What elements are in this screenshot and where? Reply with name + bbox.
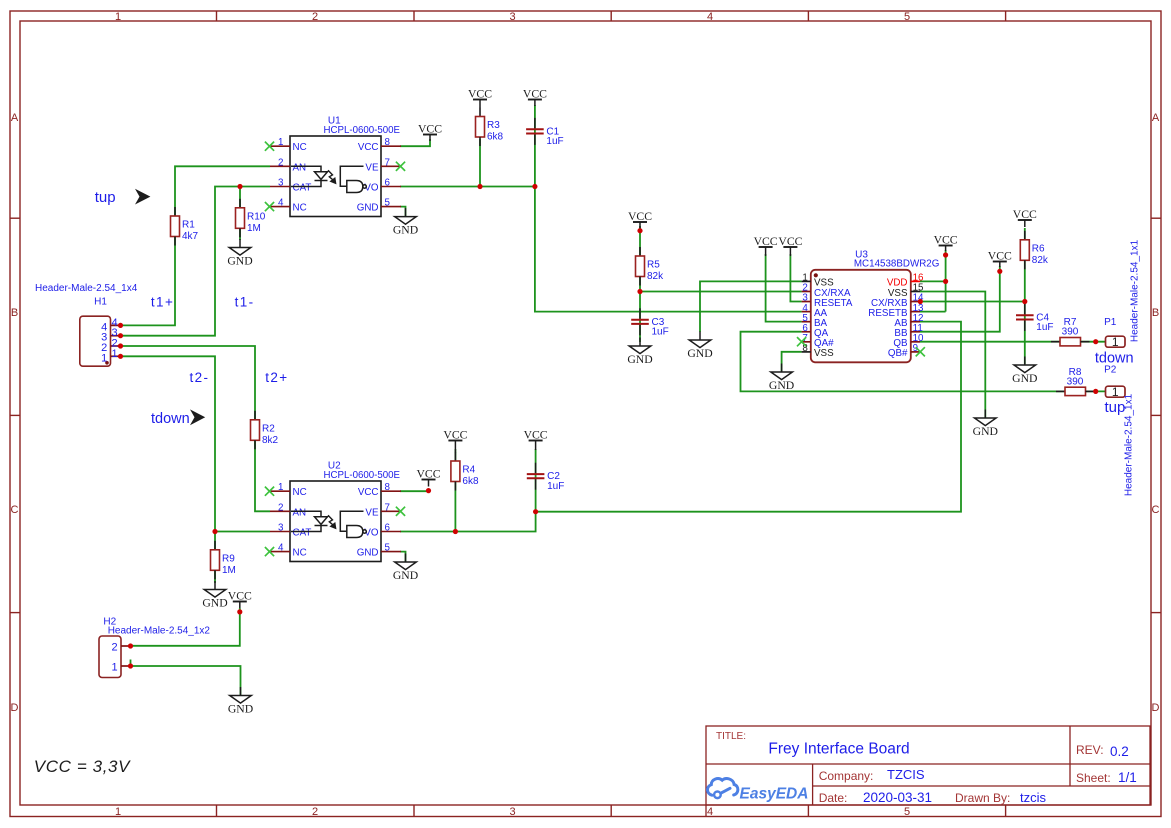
svg-text:7: 7	[385, 502, 390, 513]
svg-text:GND: GND	[357, 203, 379, 214]
svg-text:NC: NC	[293, 203, 307, 214]
node H2 pin 2 junction	[128, 643, 133, 648]
svg-text:1: 1	[101, 352, 107, 364]
svg-text:B: B	[11, 307, 18, 319]
node R3 / VO1	[477, 184, 482, 189]
resistor R10 1M	[236, 199, 266, 238]
U3 pin 9 QB#	[888, 343, 920, 359]
power flag VCC above C1	[523, 88, 547, 107]
ground below R10	[227, 239, 252, 268]
svg-text:1: 1	[115, 806, 121, 818]
svg-text:1: 1	[278, 482, 283, 493]
svg-text:AN: AN	[293, 162, 307, 173]
H1 pin1 orientation marker	[105, 361, 109, 365]
wire VCC to U3 BA pin5	[766, 254, 802, 322]
svg-text:82k: 82k	[647, 271, 664, 282]
node H1 pin 2 junction	[118, 343, 123, 348]
U1 pin 7 VE	[365, 157, 401, 173]
resistor R9 1M	[211, 541, 236, 580]
U2 pin 7 VE	[365, 502, 401, 518]
svg-text:VE: VE	[365, 507, 379, 518]
svg-text:4: 4	[707, 11, 713, 23]
U2 pin 6 VO	[364, 523, 401, 539]
svg-text:2: 2	[278, 157, 283, 168]
power flag VCC to U3 BB	[988, 250, 1012, 268]
node R5 / C3 / CX-RXA	[637, 289, 642, 294]
U3 pin 4 AA	[802, 303, 828, 319]
U2 pin 5 GND	[357, 543, 401, 559]
no-connect U3 pin7 QA#	[797, 337, 806, 346]
svg-text:P1: P1	[1104, 317, 1117, 328]
svg-text:2: 2	[312, 11, 318, 23]
resistor R3 6k8	[476, 108, 504, 147]
wire U3 pin1 VSS to ground	[700, 281, 802, 332]
svg-text:2: 2	[312, 806, 318, 818]
svg-text:4: 4	[278, 543, 284, 554]
node VCC at BB rail	[997, 269, 1002, 274]
no-connect U1 pin7	[396, 162, 405, 171]
node C2 / AB net	[533, 509, 538, 514]
wire net tdown2 : U3 QB - R7 - P1	[920, 341, 1106, 343]
node U3 VDD pin16	[943, 279, 948, 284]
wire VCC to U3 BB pin11	[920, 266, 1000, 332]
capacitor C4 1uF	[1016, 304, 1054, 333]
power flag VCC at U2 pin8	[416, 468, 440, 487]
wire VCC to U3 VDD pin16 and RESETB pin13	[945, 250, 947, 312]
power flag VCC to U3 BA	[754, 235, 778, 256]
wire VCC to H2 pin2	[131, 608, 240, 646]
svg-text:3: 3	[278, 523, 284, 534]
wire C2 branch	[535, 449, 537, 512]
resistor R4 6k8	[451, 452, 479, 491]
U3 pin 10 QB	[893, 333, 924, 349]
svg-text:Header-Male-2.54_1x2: Header-Male-2.54_1x2	[108, 626, 211, 637]
ground at U2 pin5	[393, 554, 418, 583]
svg-text:R6: R6	[1032, 243, 1045, 254]
svg-text:GND: GND	[228, 703, 253, 716]
svg-text:1: 1	[1112, 335, 1119, 349]
svg-text:2: 2	[111, 642, 117, 654]
power flag VCC above R4	[443, 429, 467, 453]
wire net VO2 : U2 VO - R4 - C2	[400, 512, 536, 532]
svg-text:tup: tup	[1105, 399, 1126, 416]
no-connect U2 pin1	[265, 487, 274, 496]
svg-text:8k2: 8k2	[262, 435, 279, 446]
power flag VCC to U3 RESETA	[778, 235, 802, 256]
power flag VCC above R3	[468, 88, 492, 108]
U1 pin 1 NC	[270, 137, 307, 153]
U2 pin 8 VCC	[358, 482, 401, 498]
wire U3 pin8 VSS to ground	[782, 352, 802, 372]
svg-text:Frey Interface Board: Frey Interface Board	[768, 741, 909, 758]
U2 pin 2 AN	[270, 502, 306, 518]
svg-text:4: 4	[707, 806, 713, 818]
svg-text:5: 5	[385, 198, 391, 209]
U2 internal output buffer gate	[340, 511, 366, 537]
resistor R8 390	[1056, 367, 1095, 396]
wire U1 GND pin5	[400, 207, 406, 217]
U1 internal LED	[291, 166, 328, 186]
svg-text:5: 5	[904, 806, 910, 818]
svg-text:1uF: 1uF	[652, 327, 669, 338]
node R7 / P1	[1093, 339, 1098, 344]
svg-text:390: 390	[1062, 327, 1079, 338]
no-connect U2 pin4	[265, 547, 274, 556]
wire U3 CX/RXA to R5/C3 node	[640, 291, 802, 293]
U3 pin 16 VDD	[887, 273, 924, 289]
svg-text:2020-03-31: 2020-03-31	[863, 790, 932, 805]
node R4 / VO2	[453, 529, 458, 534]
svg-text:t1+: t1+	[151, 295, 174, 310]
svg-text:QB#: QB#	[888, 348, 908, 359]
svg-text:EasyEDA: EasyEDA	[740, 785, 809, 802]
svg-text:GND: GND	[973, 425, 998, 438]
svg-text:5: 5	[385, 543, 391, 554]
svg-text:3: 3	[509, 806, 515, 818]
wire R3 pull-up branch	[479, 139, 481, 187]
U3 pin 15 VSS	[888, 283, 924, 299]
wire net tup2 : U3 QA - R8 - P2	[741, 332, 1106, 392]
svg-text:1: 1	[112, 348, 118, 360]
no-connect U3 pin9 QB#	[916, 347, 925, 356]
svg-text:Header-Male-2.54_1x4: Header-Male-2.54_1x4	[35, 283, 138, 294]
resistor R5 82k	[636, 247, 665, 286]
node H1 pin 4 junction	[118, 323, 123, 328]
svg-text:8: 8	[385, 137, 391, 148]
power flag VCC above R6	[1013, 208, 1037, 227]
svg-text:1: 1	[115, 11, 121, 23]
svg-text:GND: GND	[393, 224, 418, 237]
svg-text:0.2: 0.2	[1110, 744, 1129, 759]
wire H2 pin1 to ground	[131, 666, 241, 696]
power flag VCC to H2 pin2	[228, 590, 252, 609]
wire U3 RESETB pin13 link	[920, 311, 946, 313]
U2 internal photon arrow	[328, 515, 336, 528]
node R8 / P2	[1093, 389, 1098, 394]
U1 pin 8 VCC	[358, 137, 401, 153]
capacitor C3 1uF	[631, 308, 669, 337]
svg-text:390: 390	[1067, 376, 1084, 387]
node VCC to H2	[237, 609, 242, 614]
wire U2 GND pin5	[400, 552, 406, 562]
node C1 / VO1	[532, 184, 537, 189]
U1 internal output buffer gate	[340, 166, 366, 192]
svg-text:1: 1	[111, 662, 117, 674]
U1 pin 6 VO	[364, 178, 401, 194]
svg-text:R2: R2	[262, 423, 275, 434]
resistor R1 4k7	[171, 207, 199, 246]
svg-text:t2+: t2+	[265, 370, 288, 385]
svg-text:1uF: 1uF	[1036, 322, 1053, 333]
svg-text:t1-: t1-	[235, 295, 255, 310]
svg-text:4: 4	[278, 198, 284, 209]
svg-text:R4: R4	[462, 465, 475, 476]
wire U3 VDD pin16 stub link	[920, 280, 946, 282]
H2 pin 2	[111, 642, 130, 654]
svg-text:8: 8	[385, 482, 391, 493]
svg-text:MC14538BDWR2G: MC14538BDWR2G	[854, 259, 939, 270]
svg-text:6k8: 6k8	[487, 132, 504, 143]
ground at U3 pin15	[973, 410, 998, 439]
U3 pin 13 RESETB	[868, 303, 924, 319]
wire U1 VCC pin8	[400, 139, 430, 146]
svg-text:VCC: VCC	[358, 487, 379, 498]
U1 pin 5 GND	[357, 198, 401, 214]
svg-text:R9: R9	[222, 553, 235, 564]
svg-text:TZCIS: TZCIS	[887, 767, 925, 782]
connector P1 Header-Male-2.54_1x1 (tdown)	[1095, 239, 1141, 366]
resistor R2 8k2	[251, 411, 279, 450]
node U1 CAT / R10	[237, 184, 242, 189]
svg-text:3: 3	[278, 178, 284, 189]
U3 pin 7 QA#	[802, 333, 835, 349]
svg-text:Header-Male-2.54_1x1: Header-Male-2.54_1x1	[1124, 393, 1135, 496]
svg-text:VE: VE	[365, 162, 379, 173]
U3 pin 14 CX/RXB	[871, 293, 924, 309]
net label tdown with arrow	[151, 409, 205, 427]
title block	[706, 726, 1150, 817]
svg-text:B: B	[1152, 307, 1159, 319]
node VCC at U3 VDD rail	[943, 252, 948, 257]
svg-text:Header-Male-2.54_1x1: Header-Male-2.54_1x1	[1130, 239, 1141, 342]
svg-text:A: A	[11, 112, 19, 124]
U3 pin 3 RESETA	[802, 293, 853, 309]
svg-text:VCC: VCC	[358, 142, 379, 153]
svg-text:Sheet:: Sheet:	[1076, 771, 1111, 785]
svg-text:GND: GND	[393, 569, 418, 582]
svg-text:HCPL-0600-500E: HCPL-0600-500E	[324, 470, 401, 481]
svg-text:3: 3	[509, 11, 515, 23]
svg-text:1uF: 1uF	[547, 481, 564, 492]
svg-text:1: 1	[278, 137, 283, 148]
ground below C4	[1012, 357, 1037, 386]
power flag VCC at U3 VDD	[934, 234, 958, 252]
svg-text:t2-: t2-	[190, 370, 210, 385]
svg-text:1/1: 1/1	[1118, 770, 1137, 785]
svg-text:C: C	[11, 504, 19, 516]
ground at U3 pin8	[769, 364, 794, 393]
svg-text:D: D	[1152, 702, 1160, 714]
svg-text:C: C	[1152, 504, 1160, 516]
svg-text:VSS: VSS	[814, 348, 834, 359]
svg-text:6k8: 6k8	[462, 476, 479, 487]
node VCC / R5	[637, 228, 642, 233]
node U2 CAT / R9	[212, 529, 217, 534]
ground at H2 pin1	[228, 687, 253, 716]
wire U3 CX/RXB pin14 to R6/C4 node	[920, 301, 1025, 303]
node U2 VCC	[426, 488, 431, 493]
wire net tdown/t2- : H1 pin1 - U2 CAT	[121, 356, 271, 531]
node H1 pin 1 junction	[118, 354, 123, 359]
no-connect U1 pin1	[265, 142, 274, 151]
svg-text:Drawn By:: Drawn By:	[955, 791, 1010, 805]
svg-text:82k: 82k	[1032, 255, 1049, 266]
wire net t1- : U1 CAT - H1 pin3	[121, 187, 271, 336]
connector P2 Header-Male-2.54_1x1 (tup)	[1104, 365, 1135, 497]
ground at U1 pin5	[393, 208, 418, 237]
op-amp U2 optocoupler HCPL-0600-500E body	[290, 461, 401, 562]
connector H2 Header-Male-2.54_1x2	[99, 617, 210, 678]
svg-text:NC: NC	[293, 548, 307, 559]
wire U2 VCC pin8	[400, 490, 429, 492]
H1 pin 3	[101, 327, 120, 344]
svg-text:6: 6	[385, 523, 391, 534]
svg-text:H1: H1	[94, 297, 107, 308]
connector H1 Header-Male-2.54_1x4	[35, 283, 138, 366]
svg-text:Date:: Date:	[819, 791, 848, 805]
svg-text:Company:: Company:	[819, 769, 874, 783]
svg-text:NC: NC	[293, 142, 307, 153]
ground below R9	[202, 581, 227, 610]
svg-text:CAT: CAT	[293, 528, 312, 539]
svg-text:7: 7	[385, 157, 390, 168]
wire R9 branch to ground	[214, 532, 216, 584]
ground below C3	[627, 338, 652, 367]
svg-text:1uF: 1uF	[546, 136, 563, 147]
U3 pin 8 VSS	[802, 343, 834, 359]
H2 pin 1	[111, 662, 130, 674]
power flag VCC above C2	[524, 429, 548, 451]
svg-text:6: 6	[385, 178, 391, 189]
U3 pin 2 CX/RXA	[802, 283, 851, 299]
U3 pin1 orientation marker	[814, 273, 818, 277]
U1 pin 3 CAT	[270, 178, 311, 194]
wire stub above H2 pin1	[130, 660, 132, 664]
no-connect U1 pin4	[265, 202, 274, 211]
wire R4 branch	[454, 449, 456, 532]
svg-text:R5: R5	[647, 260, 660, 271]
capacitor C2 1uF	[527, 463, 565, 492]
svg-text:4k7: 4k7	[182, 231, 199, 242]
svg-text:GND: GND	[202, 597, 227, 610]
wire U3 AB pin12 to U2 VO node	[536, 322, 961, 512]
svg-text:tup: tup	[95, 189, 116, 206]
wire R5 - C3 branch	[639, 226, 641, 342]
svg-text:REV:: REV:	[1076, 743, 1104, 757]
svg-text:P2: P2	[1104, 365, 1117, 376]
U2 pin 3 CAT	[270, 523, 311, 539]
U1 internal photon arrow	[328, 170, 336, 183]
capacitor C1 1uF	[526, 118, 564, 147]
H1 pin 2	[101, 338, 120, 355]
svg-text:AN: AN	[293, 507, 307, 518]
svg-text:R1: R1	[182, 220, 195, 231]
wire net t2+ : H1 pin2 - R2 - U2 AN	[121, 346, 271, 511]
U2 pin 1 NC	[270, 482, 307, 498]
U3 pin 6 QA	[802, 323, 829, 339]
ground at U3 pin1	[687, 332, 712, 361]
svg-text:R3: R3	[487, 120, 500, 131]
resistor R6 82k	[1020, 231, 1049, 269]
svg-text:tdown: tdown	[151, 411, 190, 427]
svg-text:5: 5	[904, 11, 910, 23]
wire U3 pin15 VSS to ground	[920, 292, 985, 419]
svg-text:GND: GND	[687, 347, 712, 360]
U1 pin 2 AN	[270, 157, 306, 173]
svg-text:GND: GND	[227, 255, 252, 268]
U3 pin 11 BB	[894, 323, 922, 339]
H1 pin 1	[101, 348, 120, 365]
H1 pin 4	[101, 317, 120, 334]
op-amp U1 optocoupler HCPL-0600-500E body	[290, 116, 401, 217]
U3 pin 1 VSS	[802, 273, 834, 289]
svg-text:D: D	[11, 702, 19, 714]
svg-text:TITLE:: TITLE:	[716, 731, 746, 742]
node U3 pin14	[918, 299, 923, 304]
wire VCC to U3 RESETA pin3	[790, 254, 801, 302]
U2 internal LED	[291, 511, 328, 531]
U3 pin 12 AB	[894, 313, 923, 329]
svg-text:A: A	[1152, 112, 1160, 124]
wire net tup : U1 AN - R1 - H1 pin4	[121, 166, 271, 325]
svg-text:GND: GND	[769, 379, 794, 392]
svg-text:GND: GND	[1012, 372, 1037, 385]
net label tup with arrow	[95, 189, 151, 206]
svg-text:2: 2	[278, 502, 283, 513]
svg-text:GND: GND	[627, 353, 652, 366]
node H2 pin 1 junction	[128, 663, 133, 668]
svg-text:1M: 1M	[247, 223, 261, 234]
EasyEDA logo	[707, 779, 808, 803]
ic U3 MC14538BDWR2G body	[811, 250, 940, 363]
no-connect U2 pin7	[396, 507, 405, 516]
svg-text:1M: 1M	[222, 565, 236, 576]
wire net VO1 : U1 VO - R3 - C1 - U3 AA	[400, 187, 802, 312]
svg-text:CAT: CAT	[293, 183, 312, 194]
svg-text:1: 1	[1112, 385, 1119, 399]
svg-text:NC: NC	[293, 487, 307, 498]
svg-text:tzcis: tzcis	[1020, 790, 1047, 805]
resistor R7 390	[1051, 317, 1090, 346]
svg-text:R10: R10	[247, 211, 266, 222]
power flag VCC above R5	[628, 210, 652, 229]
node H1 pin 3 junction	[118, 333, 123, 338]
power flag VCC at U1 pin8	[418, 123, 442, 142]
wire R10 branch	[239, 187, 241, 241]
svg-text:HCPL-0600-500E: HCPL-0600-500E	[324, 125, 401, 136]
wire R6 - C4 branch	[1024, 228, 1026, 364]
node R6 / C4 / CX-RXB	[1022, 299, 1027, 304]
svg-text:GND: GND	[357, 548, 379, 559]
U1 pin 4 NC	[270, 198, 307, 214]
wire C1 branch	[534, 105, 536, 187]
U2 pin 4 NC	[270, 543, 307, 559]
svg-text:VCC = 3,3V: VCC = 3,3V	[34, 757, 131, 776]
U3 pin 5 BA	[802, 313, 828, 329]
